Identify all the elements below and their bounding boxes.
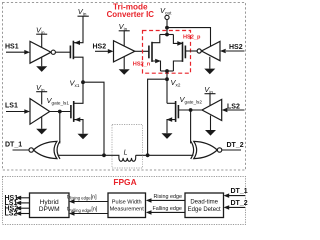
- pass-gate red dashed box: [143, 31, 191, 74]
- svg-text:Edge Detect: Edge Detect: [188, 207, 221, 213]
- svg-text:FPGA: FPGA: [113, 177, 136, 187]
- supply Vin bar U3: [119, 30, 130, 32]
- wire DT_1 into detect: [229, 195, 246, 197]
- svg-text:HS2_n: HS2_n: [133, 61, 151, 67]
- wire Vx2 to inductor: [148, 79, 167, 155]
- wire DPWM out LS2: [21, 213, 30, 215]
- wire switch node rail with inductor: [58, 154, 105, 156]
- supply Vin bar U2: [36, 91, 47, 93]
- svg-text:L: L: [124, 149, 128, 156]
- svg-text:DT_1: DT_1: [5, 141, 22, 148]
- wire rising edge: [151, 199, 186, 201]
- wire to DT1 gate input: [59, 112, 61, 144]
- wire DPWM out HS1: [21, 197, 30, 199]
- wire to DT2 gate input: [190, 110, 192, 143]
- wire falling edge: [151, 211, 186, 213]
- supply Vin bar U1: [36, 33, 47, 35]
- svg-text:LS2: LS2: [227, 103, 240, 110]
- inductor L: [104, 155, 136, 161]
- gate G1 XNOR DT_1: [57, 141, 60, 159]
- wire U1 output to M1 gate: [55, 51, 70, 53]
- wire t_falling to DPWM: [74, 213, 109, 215]
- node gate ls1 junction: [58, 110, 62, 114]
- svg-text:LS1: LS1: [5, 103, 18, 110]
- svg-text:Rising edge: Rising edge: [154, 194, 182, 200]
- svg-text:HS2_p: HS2_p: [183, 35, 201, 41]
- ground below M2: [78, 134, 89, 140]
- buffer U1 (HS1 driver): [30, 41, 51, 63]
- svg-text:LS2: LS2: [5, 211, 18, 218]
- svg-text:DT_2: DT_2: [231, 200, 248, 207]
- wire LS2 input: [228, 109, 245, 111]
- svg-text:Falling edge: Falling edge: [153, 206, 182, 212]
- wire U3 output to pass gate: [135, 50, 149, 52]
- node gate ls2 junction: [189, 108, 193, 112]
- svg-text:Measurement: Measurement: [110, 206, 145, 212]
- ground below M3: [162, 133, 173, 139]
- svg-text:DT_1: DT_1: [231, 188, 248, 195]
- transistor M3 NMOS low-side 2: [176, 101, 179, 122]
- pass gate bottom rail: [161, 70, 174, 72]
- buffer U3 (HS2_n driver): [114, 41, 135, 62]
- node Vout junction: [165, 26, 169, 30]
- svg-text:tRising edge[n]: tRising edge[n]: [67, 194, 97, 200]
- svg-text:DPWM: DPWM: [39, 206, 60, 213]
- transistor Q1 pass NMOS: [152, 35, 160, 43]
- block Pulse Width Measurement: [108, 193, 146, 218]
- wire Vout to HS2 right buffer supply: [167, 28, 211, 47]
- wire DT_2 into detect: [229, 206, 246, 208]
- wire DPWM out HS2: [21, 207, 30, 209]
- svg-text:Hybrid: Hybrid: [40, 199, 59, 206]
- transistor Q2 pass PMOS: [173, 35, 182, 44]
- node Vx1: [81, 80, 85, 84]
- svg-text:Pulse Width: Pulse Width: [112, 200, 142, 206]
- wire M3 gate to LS2 buffer: [178, 109, 202, 111]
- node inductor right: [146, 153, 150, 157]
- wire right pass gate to bubble: [185, 50, 197, 52]
- ground below U5: [210, 116, 212, 131]
- svg-text:HS2: HS2: [93, 44, 107, 51]
- wire DT2 output: [222, 149, 241, 151]
- buffer U2 (LS1 driver): [30, 99, 50, 125]
- wire Vx1 to inductor: [83, 82, 104, 155]
- svg-text:Converter IC: Converter IC: [107, 10, 155, 19]
- wire LS1 input: [6, 111, 25, 113]
- inductor dotted box: [112, 125, 143, 169]
- block Dead-time Edge Detect: [185, 193, 224, 218]
- wire t_rising to DPWM: [74, 201, 109, 203]
- supply Vin bar M1: [78, 15, 89, 17]
- ground below U2: [41, 117, 43, 129]
- IC outer dashed border: [3, 3, 246, 171]
- svg-text:DT_2: DT_2: [227, 142, 244, 149]
- wire HS1 input: [6, 51, 25, 53]
- node Vx2: [165, 77, 169, 81]
- wire DT1 output: [13, 149, 30, 151]
- wire DPWM out LS1: [21, 202, 30, 204]
- buffer U5 (LS2 driver): [202, 99, 222, 120]
- svg-text:tFalling edge[n]: tFalling edge[n]: [67, 207, 98, 213]
- pass gate top rail: [160, 34, 174, 36]
- svg-text:HS1: HS1: [5, 43, 19, 50]
- node Vout terminal: [165, 15, 169, 34]
- node inductor left: [102, 153, 106, 157]
- FPGA box: [3, 177, 246, 225]
- ground below U1: [41, 57, 43, 66]
- gate G2 XNOR DT_2: [191, 141, 194, 159]
- svg-text:Dead-time: Dead-time: [190, 200, 218, 206]
- transistor M2 NMOS low-side 1: [71, 101, 74, 122]
- block Hybrid DPWM: [30, 193, 70, 218]
- wire HS2 left input: [95, 50, 109, 52]
- transistor M1 PMOS high-side 1: [70, 41, 73, 60]
- supply Vin bar U5: [205, 93, 216, 95]
- svg-text:HS2: HS2: [229, 44, 243, 51]
- wire HS2 right input: [226, 50, 245, 52]
- buffer U4 (HS2_p driver, powered from Vout): [197, 49, 201, 53]
- wire pass gate to Vx2: [166, 71, 168, 103]
- ground below U4: [209, 57, 211, 69]
- wire U2 output to M2 gate: [50, 111, 71, 113]
- ground below U3: [123, 57, 125, 69]
